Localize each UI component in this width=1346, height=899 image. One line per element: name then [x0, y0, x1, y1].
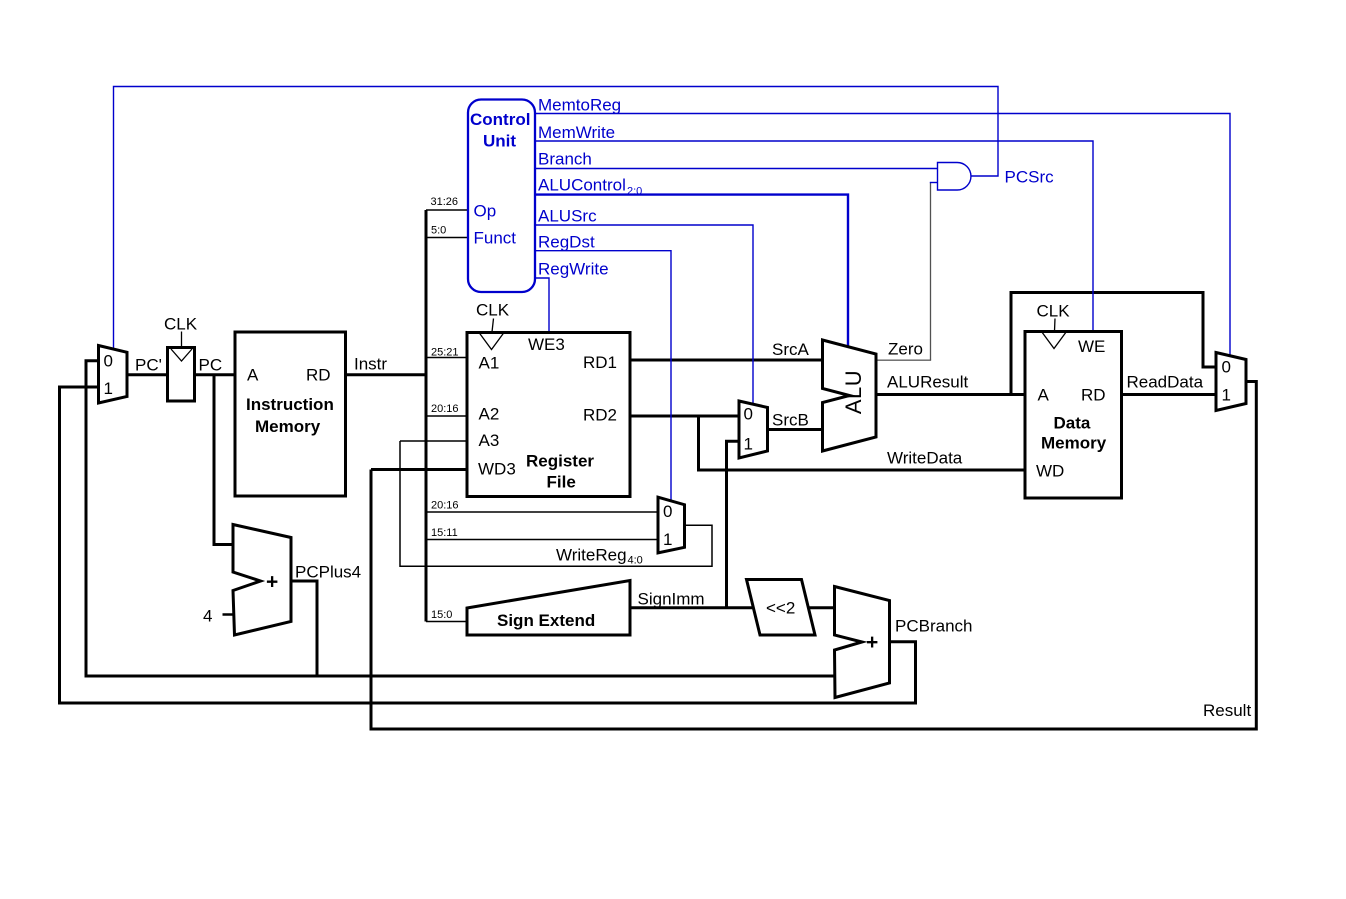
wire A2 stub 20:16	[426, 415, 467, 417]
svg-text:Unit: Unit	[483, 132, 516, 151]
svg-text:MemWrite: MemWrite	[538, 123, 615, 142]
svg-text:WD3: WD3	[478, 460, 516, 479]
svg-text:CLK: CLK	[1037, 302, 1071, 321]
wire MemWrite to Data Memory WE	[535, 141, 1093, 332]
shifter left-2 parallelogram	[747, 580, 816, 636]
svg-text:WE3: WE3	[528, 335, 565, 354]
wire PCSrc from AND gate up over top to PC mux select	[114, 87, 999, 350]
mux PC source (0/1)	[99, 346, 128, 404]
svg-text:0: 0	[744, 405, 753, 424]
svg-text:ALUSrc: ALUSrc	[538, 207, 597, 226]
svg-text:25:21: 25:21	[431, 347, 459, 359]
svg-text:+: +	[266, 571, 278, 594]
svg-text:A: A	[247, 366, 259, 385]
svg-text:RD1: RD1	[583, 353, 617, 372]
wire ALUControl 2:0 to ALU	[535, 195, 848, 347]
svg-text:15:11: 15:11	[431, 527, 458, 539]
wire shifter output to PCBranch adder	[808, 606, 835, 609]
svg-text:CLK: CLK	[476, 301, 510, 320]
wire ALUResult to Data Memory A	[876, 393, 1025, 396]
wire SignImm riser to SrcB mux input 1	[727, 441, 740, 608]
svg-text:A3: A3	[479, 431, 500, 450]
wire PC (register to Instruction Memory)	[195, 373, 236, 376]
wire 4 constant stub	[223, 613, 234, 616]
svg-text:RD: RD	[306, 366, 331, 385]
wire ReadData to result mux input 1	[1122, 393, 1217, 396]
wire SrcB mux output to ALU	[768, 428, 823, 431]
svg-text:Data: Data	[1054, 414, 1091, 433]
svg-text:SignImm: SignImm	[638, 590, 705, 609]
clock symbol on Register File	[479, 319, 504, 350]
svg-text:Sign Extend: Sign Extend	[497, 611, 595, 630]
alu ALU	[823, 340, 877, 451]
wire Op stub 31:26	[426, 209, 468, 211]
svg-text:Zero: Zero	[888, 340, 923, 359]
adder PCPlus4	[233, 525, 291, 636]
svg-text:0: 0	[104, 352, 113, 371]
svg-text:PCPlus4: PCPlus4	[295, 563, 361, 582]
wire WriteReg mux output to A3	[400, 441, 712, 566]
svg-text:<<2: <<2	[766, 599, 795, 618]
svg-text:RegDst: RegDst	[538, 233, 595, 252]
clock symbol on PC register	[171, 332, 192, 362]
svg-text:PC: PC	[199, 356, 223, 375]
wire 15:0 stub to Sign Extend	[426, 621, 467, 623]
wire WriteData drop from RD2	[699, 416, 1026, 470]
wire RD2 to SrcB mux input 0	[630, 415, 739, 418]
clock symbol on Data Memory	[1042, 319, 1067, 349]
svg-text:RD2: RD2	[583, 406, 617, 425]
svg-text:Memory: Memory	[255, 417, 321, 436]
adder PCBranch	[835, 587, 890, 698]
svg-text:Register: Register	[526, 452, 594, 471]
svg-text:0: 0	[1222, 358, 1231, 377]
svg-text:MemtoReg: MemtoReg	[538, 96, 621, 115]
block Register File	[467, 333, 630, 497]
svg-text:Funct: Funct	[474, 229, 517, 248]
svg-text:File: File	[547, 473, 576, 492]
svg-text:1: 1	[744, 435, 753, 454]
wire PCPlus4 bottom rail to PCBranch adder and PC mux input 0	[86, 361, 835, 676]
wire PC' (mux out to PC register)	[127, 373, 168, 376]
svg-text:Branch: Branch	[538, 150, 592, 169]
wire Zero vertical riser to AND gate	[930, 183, 932, 361]
block Sign Extend	[467, 581, 630, 636]
svg-text:SrcA: SrcA	[772, 340, 810, 359]
wire Result from mux down and around to WD3	[371, 382, 1256, 730]
wire A1 stub 25:21	[426, 357, 467, 359]
svg-text:Instr: Instr	[354, 355, 387, 374]
wire ALUResult bypass over Data Memory to result mux input 0	[1011, 293, 1216, 395]
register PC	[168, 348, 195, 402]
svg-text:WriteReg: WriteReg	[556, 546, 627, 565]
svg-text:ALU: ALU	[841, 370, 866, 414]
svg-text:1: 1	[104, 379, 113, 398]
wire Instr (IM RD to instruction bus)	[346, 373, 428, 376]
svg-text:A: A	[1038, 386, 1050, 405]
svg-text:4: 4	[203, 607, 212, 626]
svg-text:1: 1	[1222, 386, 1231, 405]
mux WriteReg (RegDst)	[658, 497, 685, 553]
svg-text:Control: Control	[470, 110, 530, 129]
wire RegWrite to Register File WE3	[535, 278, 549, 333]
svg-text:PC': PC'	[135, 356, 162, 375]
wire SignImm from Sign Extend to shifter	[630, 606, 754, 609]
svg-text:SrcB: SrcB	[772, 411, 809, 430]
wire Branch to AND gate	[535, 168, 938, 170]
mux Result (MemtoReg)	[1216, 353, 1246, 411]
mux SrcB (ALUSrc)	[739, 401, 768, 458]
wire 15:11 stub to WriteReg mux input 1	[426, 539, 658, 541]
svg-text:A1: A1	[479, 354, 500, 373]
wire instruction bus vertical	[425, 210, 428, 622]
svg-text:0: 0	[663, 502, 672, 521]
wire WD3 stub (from Result riser)	[371, 468, 467, 471]
svg-text:31:26: 31:26	[431, 196, 459, 208]
svg-text:RD: RD	[1081, 386, 1106, 405]
wire 20:16 stub to WriteReg mux input 0	[426, 511, 658, 513]
wire PCBranch output rail to PC mux input 1	[60, 387, 916, 703]
svg-text:ReadData: ReadData	[1127, 373, 1204, 392]
and-gate PCSrc	[938, 163, 971, 191]
wire Zero stub into AND gate	[930, 182, 938, 184]
svg-text:1: 1	[663, 530, 672, 549]
svg-text:RegWrite: RegWrite	[538, 260, 609, 279]
svg-text:2:0: 2:0	[627, 186, 642, 198]
svg-text:Memory: Memory	[1041, 434, 1107, 453]
wire RD1 SrcA to ALU	[630, 359, 823, 362]
svg-text:CLK: CLK	[164, 315, 198, 334]
svg-text:ALUControl: ALUControl	[538, 176, 626, 195]
block Data Memory	[1025, 332, 1122, 499]
svg-text:5:0: 5:0	[431, 225, 446, 237]
svg-text:PCSrc: PCSrc	[1005, 168, 1055, 187]
svg-text:ALUResult: ALUResult	[887, 373, 969, 392]
wire Funct stub 5:0	[426, 237, 468, 239]
svg-text:20:16: 20:16	[431, 500, 459, 512]
block Instruction Memory	[235, 332, 346, 496]
svg-text:Instruction: Instruction	[246, 395, 334, 414]
wire ALUSrc to SrcB mux select	[535, 225, 753, 405]
svg-text:Op: Op	[474, 202, 497, 221]
wire A3 stub	[400, 440, 467, 442]
svg-text:A2: A2	[479, 405, 500, 424]
svg-text:15:0: 15:0	[431, 609, 452, 621]
wire Zero from ALU to AND gate	[876, 359, 931, 361]
svg-text:4:0: 4:0	[628, 555, 643, 567]
svg-text:WriteData: WriteData	[887, 449, 963, 468]
wire MemtoReg to result mux select	[535, 114, 1230, 357]
svg-text:PCBranch: PCBranch	[895, 617, 972, 636]
wire RegDst to WriteReg mux select	[535, 251, 671, 501]
wire PCPlus4 adder output	[291, 581, 317, 676]
wire PC tap down to PCPlus4 adder	[214, 375, 233, 545]
control unit block	[468, 100, 535, 293]
svg-text:WE: WE	[1078, 337, 1105, 356]
svg-text:+: +	[866, 631, 878, 654]
svg-text:WD: WD	[1036, 462, 1064, 481]
svg-text:Result: Result	[1203, 701, 1251, 720]
svg-text:20:16: 20:16	[431, 403, 459, 415]
